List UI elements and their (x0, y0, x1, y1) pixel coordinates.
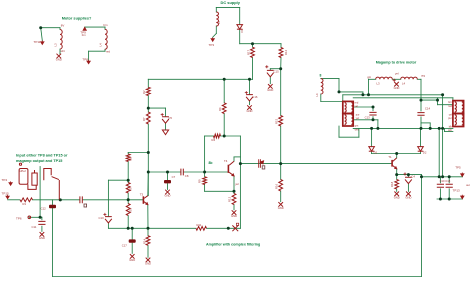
svg-text:yel: yel (235, 182, 239, 186)
svg-text:TP13: TP13 (453, 188, 461, 192)
svg-text:Amplifier with complex filteri: Amplifier with complex filtering (206, 242, 260, 246)
svg-text:TP8: TP8 (82, 57, 88, 61)
svg-text:Magamp to drive motor: Magamp to drive motor (376, 61, 417, 65)
svg-text:GND: GND (231, 214, 237, 218)
svg-text:red: red (106, 50, 110, 54)
svg-text:R10: R10 (128, 207, 132, 213)
svg-text:C16: C16 (252, 95, 258, 99)
svg-text:TP6: TP6 (16, 216, 22, 220)
svg-text:L4: L4 (99, 43, 103, 47)
svg-text:L4: L4 (402, 81, 406, 85)
svg-text:TP5: TP5 (455, 165, 461, 169)
svg-text:wht: wht (355, 128, 359, 131)
svg-text:C4: C4 (411, 175, 415, 179)
svg-text:C5: C5 (168, 116, 172, 120)
svg-text:R2: R2 (142, 90, 146, 94)
svg-text:TP11: TP11 (34, 40, 41, 44)
svg-text:L5: L5 (217, 20, 221, 24)
svg-text:R12: R12 (284, 49, 288, 55)
svg-text:8: 8 (320, 74, 322, 78)
svg-text:GND: GND (278, 206, 284, 210)
svg-text:R7: R7 (142, 117, 146, 121)
svg-text:R15: R15 (274, 118, 278, 124)
svg-text:C13: C13 (365, 115, 371, 119)
svg-text:brn: brn (448, 101, 452, 104)
svg-text:Input either TP8 and TP15 or: Input either TP8 and TP15 or (16, 154, 68, 158)
svg-text:wht: wht (448, 129, 452, 132)
svg-text:R18: R18 (390, 181, 394, 187)
svg-text:grn: grn (355, 125, 359, 128)
svg-text:grn: grn (367, 75, 371, 79)
svg-text:GND: GND (267, 88, 273, 92)
svg-text:GND: GND (394, 195, 400, 199)
svg-text:R4: R4 (212, 138, 216, 142)
svg-text:R11: R11 (197, 223, 202, 227)
svg-text:GND: GND (165, 194, 171, 198)
svg-text:D2: D2 (423, 150, 427, 154)
svg-text:R6: R6 (218, 107, 222, 111)
svg-text:R13: R13 (228, 196, 232, 202)
svg-text:C7: C7 (172, 175, 176, 179)
svg-text:T3: T3 (140, 192, 144, 196)
svg-text:C15: C15 (274, 70, 280, 74)
svg-text:C17: C17 (122, 244, 128, 248)
svg-text:R16: R16 (274, 183, 278, 189)
svg-text:R8: R8 (128, 157, 132, 161)
svg-text:D3: D3 (240, 28, 244, 32)
svg-text:L3: L3 (54, 43, 58, 47)
svg-text:Motor supplies?: Motor supplies? (62, 16, 92, 20)
svg-text:R14: R14 (142, 238, 146, 244)
svg-text:8V: 8V (61, 24, 65, 28)
svg-text:C14: C14 (425, 107, 431, 111)
svg-text:C10: C10 (99, 216, 105, 220)
svg-text:GND: GND (394, 86, 400, 90)
svg-text:brn: brn (104, 23, 108, 27)
svg-text:R5: R5 (128, 187, 132, 191)
svg-text:GND: GND (39, 236, 45, 240)
svg-text:red: red (355, 101, 359, 104)
svg-text:yel: yel (356, 117, 360, 120)
svg-text:R9: R9 (198, 179, 202, 183)
svg-text:8b: 8b (209, 161, 213, 165)
svg-text:GND: GND (405, 195, 411, 199)
svg-text:T4: T4 (224, 159, 228, 163)
svg-text:GND: GND (129, 258, 135, 262)
svg-text:C12: C12 (41, 207, 47, 211)
svg-text:yel: yel (355, 105, 359, 108)
svg-text:wht: wht (61, 49, 66, 53)
svg-text:GND: GND (56, 58, 62, 62)
svg-text:red: red (448, 105, 452, 108)
svg-text:R1: R1 (23, 202, 27, 206)
svg-text:C8: C8 (185, 174, 189, 178)
svg-text:GND: GND (247, 109, 253, 113)
svg-text:TP4: TP4 (2, 178, 8, 182)
svg-text:T1: T1 (388, 155, 392, 159)
svg-text:TP15: TP15 (2, 192, 10, 196)
svg-text:brn: brn (82, 33, 86, 37)
svg-text:SPL2: SPL2 (19, 169, 26, 173)
svg-text:out: out (466, 183, 470, 187)
svg-text:D1: D1 (374, 150, 378, 154)
svg-text:C10 C18: C10 C18 (440, 179, 451, 183)
svg-text:C11: C11 (32, 225, 37, 229)
svg-text:L6: L6 (315, 93, 319, 97)
svg-text:pur: pur (356, 114, 360, 117)
svg-text:TP3: TP3 (209, 43, 215, 47)
svg-text:DC supply: DC supply (221, 0, 241, 5)
svg-text:pur: pur (448, 117, 452, 120)
svg-text:org: org (421, 73, 425, 77)
svg-text:GND: GND (145, 262, 151, 266)
svg-text:L3: L3 (377, 81, 381, 85)
svg-text:R17: R17 (246, 49, 250, 55)
svg-text:yel: yel (395, 71, 399, 75)
svg-text:yel: yel (449, 114, 453, 117)
svg-text:magamp output and TP15: magamp output and TP15 (16, 159, 62, 163)
